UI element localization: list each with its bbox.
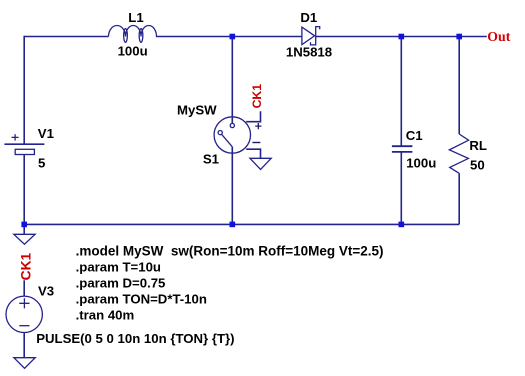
V3 minus mark	[19, 325, 29, 327]
wire V3 top stub	[23, 280, 25, 296]
switch S1 top contact	[230, 123, 234, 127]
svg-text:S1: S1	[203, 151, 219, 166]
junction bottom switch node	[230, 222, 236, 228]
svg-text:100u: 100u	[118, 43, 148, 58]
diode D1 schottky cathode bar	[311, 27, 320, 45]
svg-text:CK1: CK1	[250, 84, 264, 109]
junction bottom left node	[21, 222, 27, 228]
svg-text:L1: L1	[128, 10, 143, 25]
svg-text:1N5818: 1N5818	[286, 45, 332, 60]
ground under switch control	[250, 158, 271, 169]
wire V3 bottom stub	[23, 333, 25, 358]
svg-text:100u: 100u	[406, 156, 436, 171]
svg-text:.model MySW sw(Ron=10m Roff=1: .model MySW sw(Ron=10m Roff=10Meg Vt=2.5…	[76, 243, 384, 258]
voltage source V3 circle	[6, 296, 42, 332]
svg-text:MySW: MySW	[177, 102, 217, 117]
resistor RL zigzag	[449, 134, 468, 173]
svg-text:PULSE(0 5 0 10n 10n {TON} {T}): PULSE(0 5 0 10n 10n {TON} {T})	[36, 331, 234, 346]
wire capacitor branch upper	[400, 37, 402, 147]
wire top middle	[156, 36, 302, 38]
svg-text:.param TON=D*T-10n: .param TON=D*T-10n	[76, 291, 207, 306]
svg-text:V3: V3	[38, 284, 54, 299]
svg-text:50: 50	[470, 157, 485, 172]
wire left rail lower	[23, 155, 25, 225]
switch S1 left contact	[218, 131, 222, 135]
svg-text:.param T=10u: .param T=10u	[76, 259, 161, 274]
svg-text:D1: D1	[300, 10, 317, 25]
wire capacitor branch lower	[400, 152, 402, 224]
wire ground stub bottom-left	[23, 224, 25, 233]
wire left rail upper	[23, 36, 25, 144]
capacitor C1 bottom plate	[392, 151, 413, 153]
wire bottom rail	[24, 223, 459, 225]
svg-text:.tran 40m: .tran 40m	[76, 307, 135, 322]
wire switch branch lower	[231, 147, 233, 225]
svg-text:CK1: CK1	[19, 252, 34, 280]
svg-text:.param D=0.75: .param D=0.75	[76, 275, 166, 290]
junction top capacitor node	[399, 34, 405, 40]
wire stub to + control terminal	[246, 111, 260, 122]
capacitor C1 top plate	[392, 145, 413, 147]
battery V1 top plate	[4, 143, 44, 145]
svg-text:C1: C1	[406, 128, 423, 143]
junction bottom capacitor node	[399, 222, 405, 228]
svg-text:RL: RL	[469, 138, 487, 153]
wire resistor branch upper	[458, 37, 460, 135]
battery V1 plus polarity mark	[12, 134, 19, 140]
plus mark switch control	[255, 123, 261, 129]
switch S1 body circle	[214, 117, 250, 153]
junction top resistor node	[456, 34, 462, 40]
svg-text:V1: V1	[38, 126, 54, 141]
wire stub to - control terminal	[246, 149, 260, 158]
ground under V3	[14, 358, 35, 369]
wire top right to Out	[316, 36, 487, 38]
svg-text:Out: Out	[487, 29, 510, 44]
svg-text:5: 5	[38, 156, 45, 171]
wire top-left horizontal	[24, 36, 108, 38]
minus mark switch control	[252, 142, 260, 144]
wire resistor branch lower	[458, 173, 460, 224]
battery V1 bottom plate	[15, 149, 34, 154]
diode D1 triangle	[302, 27, 315, 44]
inductor L1	[109, 26, 157, 43]
V3 plus mark	[19, 298, 29, 308]
switch S1 lever	[222, 134, 233, 146]
ground bottom-left	[14, 234, 35, 244]
junction top switch node	[230, 34, 236, 40]
wire switch branch upper	[231, 37, 233, 124]
